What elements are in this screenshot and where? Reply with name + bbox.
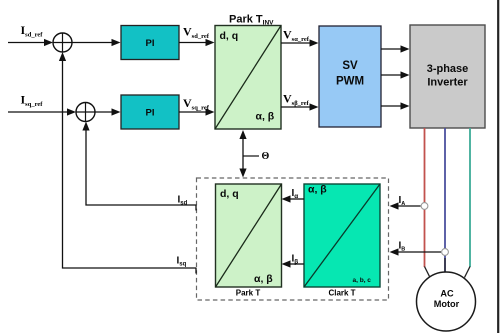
PI controller block PI1 xyxy=(121,26,179,60)
wire input row2 xyxy=(8,111,69,113)
svg-text:Isq: Isq xyxy=(177,256,187,268)
wire Park Tinv to SVPWM, node Vsb_ref xyxy=(281,106,311,108)
svg-text:Isd_ref: Isd_ref xyxy=(21,23,44,39)
svg-text:Vsβ_ref: Vsβ_ref xyxy=(283,92,310,108)
svg-text:Vsα_ref: Vsα_ref xyxy=(283,28,310,44)
svg-text:Vsq_ref: Vsq_ref xyxy=(183,96,210,112)
wire Clark to Park, node Ialpha xyxy=(289,198,304,200)
summing junction S1 xyxy=(53,33,72,52)
svg-text:d, q: d, q xyxy=(220,188,239,200)
svg-text:AC: AC xyxy=(440,289,454,299)
svg-text:Θ: Θ xyxy=(262,151,270,162)
svg-text:α, β: α, β xyxy=(254,273,273,285)
svg-text:Isd: Isd xyxy=(178,195,188,207)
wire SVPWM to inverter 1 xyxy=(381,48,402,50)
svg-text:Park T: Park T xyxy=(236,289,261,298)
motor lead A xyxy=(425,267,431,278)
wire Clark to Park, node Ibeta xyxy=(289,263,304,265)
current tap IA xyxy=(421,203,428,210)
svg-text:3-phase: 3-phase xyxy=(427,63,469,75)
wire input row1 xyxy=(8,42,46,44)
wire S2 to PI2 xyxy=(95,111,113,113)
svg-text:Motor: Motor xyxy=(434,299,460,309)
wire phase B (blue) xyxy=(444,128,446,272)
wire Isq feedback xyxy=(59,52,197,274)
wire S1 to PI1 xyxy=(72,42,113,44)
block 3-phase inverter xyxy=(410,25,485,128)
wire Isd feedback xyxy=(82,122,196,211)
block Park T inverse xyxy=(215,26,281,130)
block Clark T xyxy=(304,184,380,288)
svg-text:Iβ: Iβ xyxy=(292,254,299,266)
svg-text:Vsd_ref: Vsd_ref xyxy=(183,25,210,41)
wire Park Tinv to SVPWM, node Vsa_ref xyxy=(281,42,311,44)
svg-text:α, β: α, β xyxy=(256,111,275,123)
block Park T xyxy=(216,184,282,287)
svg-text:Park TINV: Park TINV xyxy=(229,14,274,27)
svg-text:α, β: α, β xyxy=(308,184,327,196)
svg-text:d, q: d, q xyxy=(220,30,239,42)
summing junction S2 xyxy=(76,103,95,122)
svg-text:Inverter: Inverter xyxy=(427,77,468,89)
motor M1 xyxy=(417,272,476,331)
page frame right border xyxy=(497,0,499,333)
svg-text:Isq_ref: Isq_ref xyxy=(21,93,44,109)
block SV PWM xyxy=(319,26,381,127)
svg-text:a, b, c: a, b, c xyxy=(353,277,372,284)
wire theta (double arrow) xyxy=(239,130,259,178)
wire SVPWM to inverter 2 xyxy=(381,74,402,76)
wire SVPWM to inverter 3 xyxy=(381,105,402,107)
estimator dashed box xyxy=(197,178,389,300)
motor lead C xyxy=(465,267,471,278)
motor lead B xyxy=(444,258,446,272)
svg-text:SV: SV xyxy=(342,60,358,72)
wire PI2 to Park Tinv, node Vsq_ref xyxy=(179,111,207,113)
svg-text:Iα: Iα xyxy=(292,188,299,200)
wire PI1 to Park Tinv, node Vsd_ref xyxy=(179,42,207,44)
wire IA to Clark, node IA xyxy=(397,205,421,207)
wire IB to Clark, node IB xyxy=(397,251,441,253)
current tap IB xyxy=(442,249,449,256)
svg-text:IA: IA xyxy=(399,195,406,207)
svg-text:IB: IB xyxy=(399,241,406,253)
wire phase C (teal) xyxy=(469,128,471,267)
svg-text:PI: PI xyxy=(146,107,155,118)
svg-text:PWM: PWM xyxy=(336,76,364,88)
svg-text:PI: PI xyxy=(146,38,155,49)
svg-text:Clark T: Clark T xyxy=(328,289,355,298)
PI controller block PI2 xyxy=(121,95,179,129)
wire phase A (red) xyxy=(424,128,426,267)
